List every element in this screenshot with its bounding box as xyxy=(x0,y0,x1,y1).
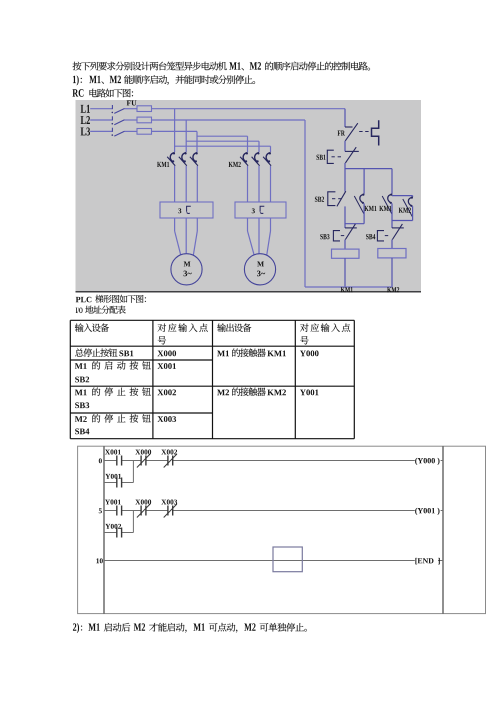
document line 2) requirement xyxy=(73,623,79,633)
table header: output point no. xyxy=(300,323,350,332)
ladder step number 0 xyxy=(99,458,102,463)
ladder left power rail xyxy=(103,446,105,613)
document title line 1 xyxy=(73,62,227,71)
contact X002 (NC) xyxy=(167,456,169,466)
wire KM1 pole 2 to overload relay xyxy=(185,166,187,202)
wire L2 lead-in xyxy=(90,119,112,121)
label KM1 coil name xyxy=(341,287,353,292)
wire L1 bus to control circuit xyxy=(152,108,346,110)
table header: input device xyxy=(75,323,109,332)
ladder rung 2 wire xyxy=(104,510,117,512)
contact X001 (NO) xyxy=(116,456,118,466)
wire branch node horizontal xyxy=(345,168,392,170)
phase label L3 xyxy=(81,127,90,135)
fuse FU pole L3 xyxy=(137,129,152,135)
contact X000 (NC) rung 2 xyxy=(140,506,142,516)
disconnect switch QS pole L3 xyxy=(111,128,113,132)
label KM1 self-hold xyxy=(364,206,376,211)
wire branch L1 to KM2 contact 3 xyxy=(175,145,271,147)
table header: output device xyxy=(217,323,251,332)
fuse label FU xyxy=(127,100,137,105)
wire L2 drop to KM1 contact 2 xyxy=(185,120,187,152)
ladder frame box xyxy=(78,446,486,613)
stop button SB1 (NC) xyxy=(345,150,359,152)
wire control hot rail drop from L1 xyxy=(344,109,346,127)
label SB1 xyxy=(316,155,325,160)
disconnect switch QS pole L2 xyxy=(111,116,113,120)
contact Y002 (NO self-hold) xyxy=(116,528,118,538)
start button SB2 (NO) xyxy=(337,191,346,206)
wire coil KM2 to return rail xyxy=(391,258,393,287)
wire L3 lead-in xyxy=(90,130,112,132)
wire coil KM1 to return rail xyxy=(344,258,346,287)
wire L2 bus to control return xyxy=(152,119,306,121)
wire branch 2 vertical xyxy=(391,169,393,194)
wires overload relay 1 to motor M1 xyxy=(174,218,176,231)
caption PLC ladder xyxy=(76,297,92,303)
wire SB2 to SB3 xyxy=(344,206,346,228)
ladder right power rail xyxy=(442,446,444,613)
FR actuator dashed link xyxy=(359,131,369,133)
table row 1: master stop button SB1 / X000 xyxy=(75,348,117,357)
overload relay FR1 box (3-phase heater) xyxy=(160,202,213,218)
wire FR to SB1 xyxy=(344,141,346,152)
table header: input point no. xyxy=(158,323,208,332)
overload relay FR2 box (3-phase heater) xyxy=(235,202,286,218)
ladder rung 1 wire xyxy=(104,460,117,462)
FR heater element crank xyxy=(372,120,379,145)
contactor KM2 main contact pole 1 xyxy=(243,153,247,162)
label SB4 xyxy=(366,234,375,239)
wire L3 to fuse xyxy=(125,130,138,132)
wire SB3 to coil KM1 xyxy=(344,240,346,250)
wire self-hold branch KM1 xyxy=(363,169,365,194)
label KM2 coil name xyxy=(387,287,399,292)
ladder step number 10 xyxy=(96,558,102,563)
fuse FU pole L1 xyxy=(137,106,152,112)
label KM1 series xyxy=(379,206,391,211)
motor M2 (3-phase) xyxy=(244,254,275,285)
wire L1 to fuse xyxy=(125,108,138,110)
contact X000 (NC) xyxy=(140,456,142,466)
wires overload relay 2 to motor M2 xyxy=(247,218,249,231)
parallel branch rung 2 xyxy=(132,511,134,533)
label KM2 self-hold xyxy=(399,208,411,213)
wire KM1 pole 1 to overload relay xyxy=(174,166,176,202)
table row 3: stop button SB3 of M1 / X002 xyxy=(75,390,87,396)
contactor KM2 main contact pole 3 xyxy=(266,153,270,162)
circuit panel bottom border xyxy=(76,291,422,293)
label FR xyxy=(337,130,344,135)
parallel branch rung 1 xyxy=(132,461,134,483)
wire control return rail bottom xyxy=(305,286,392,288)
wire KM2 pole 2 to overload relay xyxy=(258,166,260,202)
wire SB4 to coil KM2 xyxy=(391,240,393,249)
wire SB1 to branch node xyxy=(344,163,346,192)
contact Y001 (NO) xyxy=(116,506,118,516)
wire L3 bus xyxy=(152,130,198,132)
caption I/O table xyxy=(76,308,83,314)
END instruction xyxy=(415,558,439,564)
phase label L2 xyxy=(81,116,90,124)
wire control return from L2 xyxy=(304,120,306,287)
contactor coil KM1 xyxy=(332,249,360,258)
wire L3 drop to KM1 contact 3 xyxy=(196,131,198,152)
auxiliary contact KM1 (self-holding, NO) xyxy=(360,194,364,203)
label SB3 xyxy=(320,234,329,239)
ladder rung 3 wire xyxy=(104,560,415,562)
contactor KM2 main contact pole 2 xyxy=(255,153,259,162)
contactor KM1 main contact pole 2 xyxy=(182,153,186,162)
motor M1 (3-phase) xyxy=(171,254,202,285)
table row 4: stop button SB4 of M2 / X003 xyxy=(75,416,87,422)
disconnect switch QS pole L1 xyxy=(111,105,113,109)
contactor KM1 main contact pole 3 xyxy=(193,153,197,162)
stop button SB3 (NC) xyxy=(345,227,357,229)
wire L2 to fuse xyxy=(125,119,138,121)
auxiliary contact KM1 (series interlock, NO) xyxy=(388,194,392,203)
wire L1 drop to KM1 contact 1 xyxy=(174,109,176,152)
wire KM2 self-hold loop top xyxy=(392,195,413,197)
output coil Y001 xyxy=(415,508,439,515)
wire KM2 pole 3 to overload relay xyxy=(270,166,272,202)
wire L1 lead-in xyxy=(90,108,112,110)
label SB2 xyxy=(315,197,324,202)
thermal relay FR NC contact xyxy=(345,126,353,128)
cursor box on rung 3 xyxy=(273,547,302,572)
label KM2 main contacts xyxy=(229,162,241,167)
table grid xyxy=(69,320,71,438)
contact Y001 (NO self-hold) xyxy=(116,478,118,488)
wire KM2 self-hold loop bottom xyxy=(392,220,413,222)
auxiliary contact KM2 (self-holding, NO) xyxy=(412,196,414,197)
document line 2 xyxy=(73,75,79,85)
fuse FU pole L2 xyxy=(137,117,152,123)
output coil Y000 xyxy=(415,458,439,465)
phase label L1 xyxy=(81,105,90,113)
document line 3: RC circuit caption xyxy=(72,89,83,97)
wire branch L3 to KM2 contact 1 xyxy=(197,135,248,137)
ladder step number 5 xyxy=(99,508,102,513)
wire KM2 pole 1 to overload relay xyxy=(247,166,249,202)
contactor KM1 main contact pole 1 xyxy=(170,153,174,162)
contact X003 (NC) xyxy=(167,506,169,516)
table row 2: start button SB2 of M1 / X001 xyxy=(75,363,87,369)
contactor coil KM2 xyxy=(378,249,406,258)
label KM1 main contacts xyxy=(157,162,169,167)
wire KM1 pole 3 to overload relay xyxy=(196,166,198,202)
circuit panel background xyxy=(76,100,422,291)
wire branch L2 to KM2 contact 2 xyxy=(186,140,259,142)
wire self-hold branch bottom xyxy=(345,223,364,225)
table cell: contactor KM1 of M1 / Y000 xyxy=(217,351,229,357)
table cell: contactor KM2 of M2 / Y001 xyxy=(217,390,229,396)
stop button SB4 (NC) xyxy=(392,227,404,229)
